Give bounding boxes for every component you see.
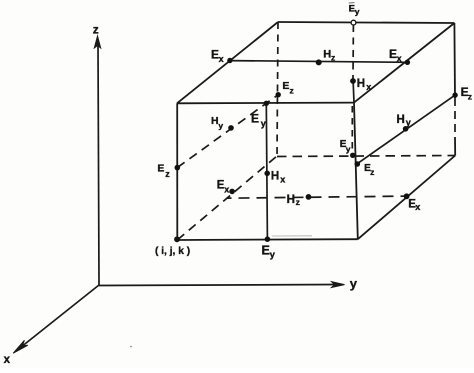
node Ex bottom-left dot [229,189,235,195]
label Ez back-left [282,80,293,95]
wire scan artifact dash above front-bottom edge [272,235,312,237]
wire vertical half-cell line upper (hidden) [352,25,354,78]
label Ey mid-right [340,139,351,154]
speck artifact [130,346,132,348]
wire back-right vertical edge upper [453,23,456,98]
label Ey front-top [251,111,266,128]
label Ex top-right [389,47,402,63]
svg-text:y: y [346,144,351,154]
node Ey back-top open marker [351,20,356,25]
node Ey front-top dot [264,101,269,106]
svg-text:E: E [262,244,270,258]
node Ex top-left dot [227,58,232,63]
svg-text:z: z [331,53,335,63]
svg-text:E: E [157,162,164,174]
wire bottom-left diagonal edge (hidden) [177,156,277,240]
label Hx upper [357,78,372,92]
wire back-left vertical edge (hidden) [277,22,278,156]
label Ey front-bottom [262,244,276,261]
node Ez front-left dot [175,165,181,171]
node Hy left dot [228,125,234,131]
y axis [99,282,345,288]
label Ez back-right [461,85,472,102]
svg-text:z: z [290,85,294,95]
cube solid edges [177,22,455,240]
svg-text:y: y [261,118,266,128]
cube hidden dashed edges [177,22,455,240]
svg-text:( i, j, k ): ( i, j, k ) [155,246,190,257]
label Hy right [397,114,411,128]
node Hy right dot [403,126,409,132]
wire right-face line Ez-Hy-Ez [357,95,455,164]
node Hx upper dot [350,78,356,84]
svg-text:x: x [4,354,11,366]
wire vertical half-cell line lower (hidden) [351,106,353,155]
wire top-right diagonal edge [354,23,454,103]
node Ex bottom-right dot [404,193,410,199]
label Ex bottom-right [408,199,420,212]
svg-text:z: z [296,197,300,207]
wire top-face line Ex-Hz-Ex [230,61,408,63]
wire front-left edge [176,103,178,240]
label Hz bottom [287,194,300,207]
svg-text:H: H [397,114,405,126]
svg-text:H: H [287,194,295,206]
z axis [94,36,100,285]
x axis [13,285,99,353]
wire top-left diagonal edge [177,22,278,103]
svg-text:y: y [406,118,411,128]
node (i,j,k) corner dot [174,236,180,242]
svg-text:z: z [468,91,472,101]
wire left-face line Ez-Hy-Ez (hidden) [177,95,278,168]
node Ez back-left dot [276,92,281,97]
face center lines [177,25,455,239]
svg-text:E: E [282,80,289,92]
wire bottom-right diagonal edge [358,156,455,240]
wire back-top edge [278,22,454,23]
label Ex bottom-left [217,180,230,195]
svg-text:y: y [218,120,223,130]
node Hx front-face dot [264,171,270,177]
svg-text:x: x [397,53,402,63]
node Ex top-right dot [405,60,410,65]
label Ex top-left [211,47,224,63]
wire front-top edge [177,102,354,105]
wire vertical half-cell line through Hx [353,78,354,103]
node Ez mid-right dot [355,161,361,167]
node Ey mid-right dot [350,153,355,158]
wire front-bottom edge [177,238,357,241]
node Hz top dot [316,59,322,65]
wire back-bottom edge (hidden) [277,156,455,157]
svg-text:y: y [350,276,358,291]
label Ez mid-right [364,163,374,177]
node Ey front-bottom dot [265,236,271,242]
svg-text:x: x [280,174,285,184]
svg-text:x: x [219,54,224,64]
label Ey back-top [349,3,360,17]
svg-text:E: E [251,111,259,125]
label Hx front-face [271,171,285,185]
svg-text:z: z [165,169,170,179]
svg-text:y: y [270,249,276,260]
svg-text:z: z [93,22,99,36]
svg-text:x: x [224,184,229,194]
svg-text:z: z [370,167,374,177]
wire front-right edge [354,103,358,240]
svg-text:H: H [357,78,365,90]
node Hz bottom dot [306,194,312,200]
svg-text:H: H [271,171,279,183]
label Hz top [323,49,335,63]
svg-text:x: x [366,82,371,92]
label Ez front-left [157,162,170,179]
node Ez back-right dot [452,92,457,97]
wire back-right vertical edge lower [454,137,456,156]
svg-text:y: y [355,6,360,16]
wire front-face line Ey-Hx-Ey [266,103,267,239]
wire bottom-face line Ex-Hz-Ex (hidden) [227,196,407,198]
svg-text:x: x [415,202,420,212]
wire back-right vertical edge middle (sketchy dashed) [454,98,456,137]
label Hy left [211,115,223,130]
